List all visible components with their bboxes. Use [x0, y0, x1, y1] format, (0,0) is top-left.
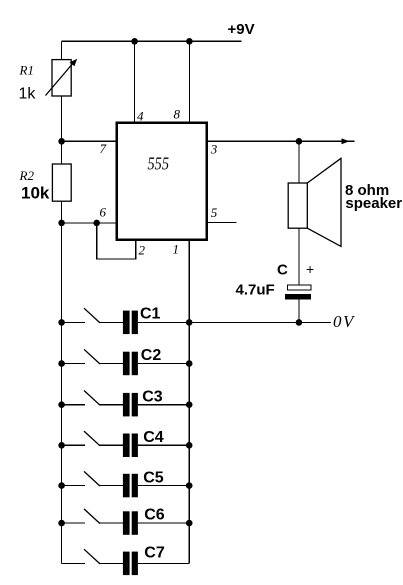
junction pin4 / +9V rail	[131, 38, 138, 45]
wire switch S1 left stub	[62, 321, 85, 323]
junction pin6 / pin2 link	[93, 220, 100, 227]
wire switch S5 to C5	[100, 485, 123, 487]
wire switch S3 left stub	[62, 404, 85, 406]
arrowhead pin3 output	[342, 138, 350, 144]
wire C2 to right rail	[138, 363, 189, 365]
capacitor C3	[123, 393, 138, 417]
svg-text:2: 2	[139, 242, 146, 257]
junction pin8 / +9V rail	[186, 38, 193, 45]
wire speaker bottom to capacitor C	[298, 228, 300, 285]
wire switch S5 left stub	[62, 485, 85, 487]
wire switch S2 to C2	[100, 363, 123, 365]
wire switch S7 left stub	[62, 562, 85, 564]
capacitor C6	[123, 511, 138, 535]
switch S5 blade	[84, 471, 100, 486]
svg-text:+9V: +9V	[228, 21, 255, 38]
svg-text:C4: C4	[143, 429, 164, 446]
svg-text:C6: C6	[144, 507, 165, 524]
wire switch S4 to C4	[100, 444, 123, 446]
svg-text:5: 5	[211, 205, 218, 220]
wire pin 1 down to right rail	[188, 241, 190, 564]
wire pin 4	[134, 41, 136, 121]
switch S6 blade	[84, 509, 100, 524]
svg-text:C2: C2	[141, 347, 162, 364]
wire switch S6 left stub	[62, 522, 85, 524]
wire switch S4 left stub	[62, 444, 85, 446]
junction left rail / row C3	[58, 401, 65, 408]
wire R2 bottom to pin6 node	[61, 201, 63, 223]
svg-text:R2: R2	[19, 168, 35, 183]
junction right rail / row C2	[186, 360, 193, 367]
wire pin 7	[62, 140, 116, 142]
switch S3 blade	[84, 391, 100, 406]
wire +9V rail to R1 top	[61, 41, 63, 59]
switch S4 blade	[84, 431, 100, 446]
svg-text:4: 4	[137, 109, 144, 124]
wire C4 to right rail	[138, 444, 189, 446]
svg-text:8: 8	[174, 107, 181, 122]
resistor R2	[52, 164, 71, 201]
junction left rail / row C1	[58, 319, 65, 326]
capacitor C2	[123, 352, 138, 376]
svg-text:R1: R1	[19, 63, 34, 78]
svg-text:speaker: speaker	[345, 195, 402, 212]
svg-text:10k: 10k	[21, 184, 50, 203]
wire pin 3 output with arrow	[208, 140, 355, 142]
junction right rail / row C6	[186, 520, 193, 527]
svg-text:7: 7	[100, 141, 107, 156]
potentiometer R1	[46, 59, 78, 96]
wire pin 8	[188, 41, 190, 121]
wire left rail pin6 node down to C7 row	[61, 223, 63, 564]
svg-text:555: 555	[148, 154, 170, 174]
svg-text:1k: 1k	[19, 86, 37, 103]
wire C1 to 0V line	[138, 321, 331, 323]
svg-text:3: 3	[210, 141, 218, 156]
junction right rail / row C1	[186, 319, 193, 326]
svg-text:C7: C7	[144, 545, 165, 562]
junction right rail / row C3	[186, 401, 193, 408]
capacitor C7	[123, 552, 138, 576]
junction right rail / row C4	[186, 442, 193, 449]
wire R1 bottom to pin7 node	[61, 96, 63, 141]
capacitor C1	[123, 311, 138, 335]
wire pin3 node down to speaker	[298, 141, 300, 183]
svg-text:+: +	[306, 261, 314, 277]
junction right rail / row C5	[186, 482, 193, 489]
svg-text:C5: C5	[143, 469, 164, 486]
wire pin 6	[62, 222, 116, 224]
wire switch S6 to C6	[100, 522, 123, 524]
wire switch S1 to C1	[100, 321, 123, 323]
wire switch S3 to C3	[100, 404, 123, 406]
switch S7 blade	[84, 549, 100, 564]
junction left rail / pin6	[58, 220, 65, 227]
svg-text:C1: C1	[140, 306, 161, 323]
wire pin7 node to R2 top	[61, 141, 63, 164]
svg-text:C3: C3	[142, 388, 163, 405]
wire pin 5 stub	[208, 222, 237, 224]
svg-text:1: 1	[173, 242, 180, 257]
wire switch S2 left stub	[62, 363, 85, 365]
svg-text:0V: 0V	[333, 312, 356, 331]
wire C7 to right rail	[138, 562, 189, 564]
switch S1 blade	[84, 308, 100, 323]
junction pin3 / speaker branch	[296, 138, 303, 145]
svg-text:4.7uF: 4.7uF	[236, 282, 275, 299]
capacitor C electrolytic	[285, 285, 311, 300]
wire pin6 to pin2 link	[97, 223, 136, 259]
speaker LS1	[288, 158, 341, 246]
wire +9V supply rail	[62, 40, 242, 42]
wire C6 to right rail	[138, 522, 189, 524]
junction R1/R2/pin7	[58, 138, 65, 145]
wire C3 to right rail	[138, 404, 189, 406]
junction left rail / row C5	[58, 482, 65, 489]
wire C5 to right rail	[138, 485, 189, 487]
junction left rail / row C6	[58, 520, 65, 527]
junction left rail / row C4	[58, 442, 65, 449]
IC U1 555 timer	[117, 123, 207, 240]
wire switch S7 to C7	[100, 562, 123, 564]
junction left rail / row C2	[58, 360, 65, 367]
capacitor C5	[123, 474, 138, 498]
capacitor C4	[123, 434, 138, 458]
svg-text:6: 6	[100, 204, 107, 219]
svg-text:C: C	[277, 262, 288, 279]
junction capacitor C / 0V rail	[296, 319, 303, 326]
switch S2 blade	[84, 349, 100, 364]
wire capacitor C to 0V rail	[298, 300, 300, 323]
